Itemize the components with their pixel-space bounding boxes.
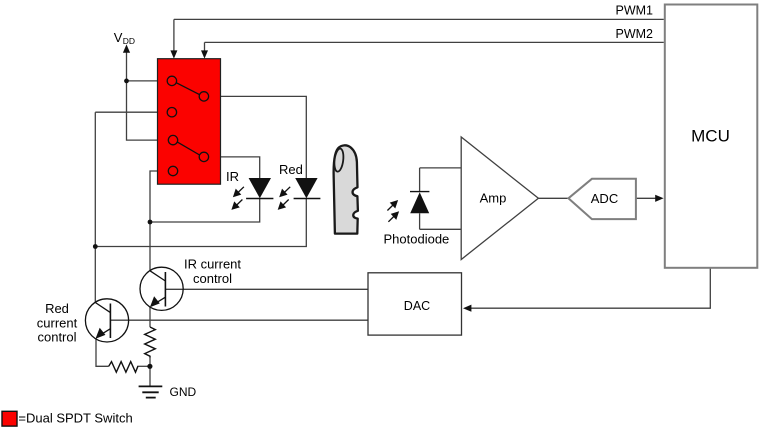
svg-text:=Dual SPDT Switch: =Dual SPDT Switch [18, 411, 132, 426]
svg-text:control: control [37, 330, 76, 345]
svg-text:Red: Red [279, 162, 303, 177]
svg-text:PWM1: PWM1 [616, 3, 654, 17]
svg-text:MCU: MCU [691, 127, 730, 146]
svg-text:ADC: ADC [591, 191, 618, 206]
svg-text:IR current: IR current [184, 257, 241, 272]
svg-text:V: V [114, 30, 123, 45]
svg-text:control: control [193, 271, 232, 286]
svg-text:GND: GND [170, 385, 197, 399]
svg-text:DAC: DAC [404, 299, 430, 313]
svg-text:Red: Red [45, 301, 69, 316]
svg-text:Amp: Amp [480, 191, 507, 206]
svg-text:Photodiode: Photodiode [384, 232, 450, 247]
svg-text:IR: IR [226, 169, 239, 184]
svg-text:PWM2: PWM2 [616, 27, 654, 41]
svg-text:current: current [37, 315, 78, 330]
svg-text:DD: DD [123, 36, 135, 46]
